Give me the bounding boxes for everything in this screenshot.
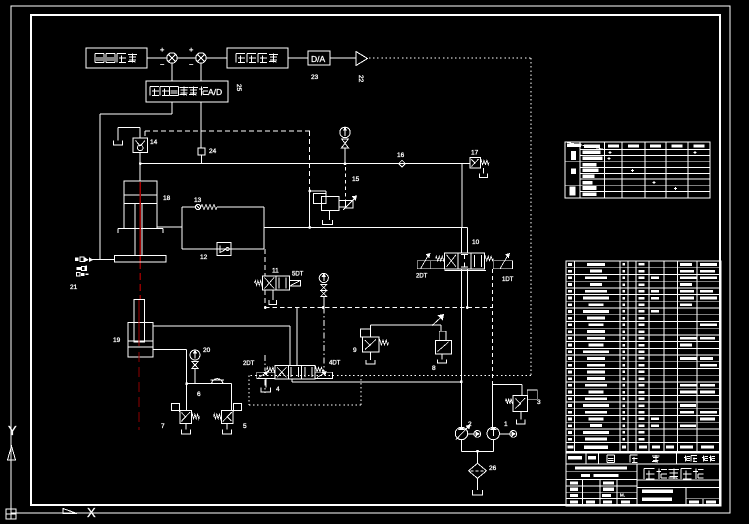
valve 15 drain to tank: [329, 211, 331, 221]
dashed pilot wire to valve 15 solenoid: [345, 167, 347, 201]
valve 8 flag arrow: [432, 317, 442, 326]
table group col blobs: [571, 151, 576, 160]
valve 11 solenoid: [289, 281, 300, 287]
moving platen 21: [115, 256, 167, 263]
wire: [330, 57, 356, 59]
red rod centerline upper: [139, 182, 141, 262]
cylinder 19 rod guide: [134, 299, 144, 342]
pump 1: [487, 427, 499, 439]
mingxibiao label: [607, 454, 615, 456]
svg-text:19: 19: [113, 337, 121, 344]
valve 10 underline: [445, 269, 487, 271]
test gauge on line C: [319, 273, 328, 282]
table header blobs: [608, 144, 619, 147]
gauge 20: [190, 350, 200, 360]
sensor b: [77, 267, 82, 270]
cylinder 18 barrel: [124, 181, 157, 229]
filter 26 to tank: [477, 478, 479, 490]
node 24 junction square: [198, 148, 205, 155]
parts table header row: [566, 451, 721, 453]
valve 11 spring: [255, 281, 263, 286]
svg-text:4DT: 4DT: [329, 361, 341, 367]
svg-text:X: X: [87, 505, 96, 520]
relief valve 7 pilot cap: [172, 404, 180, 411]
summing junction S2: [196, 53, 206, 63]
wire: [206, 57, 227, 59]
dotted enclosure around valve 4: [249, 375, 531, 377]
table plus marks: [609, 151, 612, 153]
svg-text:18: 18: [163, 195, 171, 202]
svg-text:8: 8: [432, 365, 436, 372]
svg-text:26: 26: [489, 465, 497, 472]
relief valve 3 body: [513, 395, 527, 411]
valve 11 drain tank: [272, 290, 274, 300]
valve 4 left solenoid: [257, 372, 275, 378]
wire node24 to main line: [201, 155, 203, 164]
svg-text:15: 15: [352, 176, 360, 183]
weight kg labels: [685, 456, 687, 462]
pump 2 variable: [455, 427, 467, 439]
loop piping: [181, 207, 183, 249]
check valve 12: [217, 243, 231, 256]
relief valve 3 drain: [520, 412, 522, 420]
main pressure line A: [140, 163, 462, 165]
wire valve14 to line A: [139, 153, 141, 164]
relief valve 17: [462, 163, 470, 165]
svg-text:12: 12: [200, 254, 208, 261]
wires valve10 top ports: [460, 227, 462, 252]
valve 4 tank port: [265, 379, 267, 387]
svg-text:4: 4: [276, 386, 280, 393]
dotted signal wire to valve 10: [369, 57, 531, 59]
relief valve 5 pilot cap: [234, 404, 242, 411]
wire: [288, 57, 308, 59]
UCS icon Y axis arrow: [8, 446, 16, 460]
svg-text:24: 24: [209, 148, 217, 155]
wire cylinder18 feed: [139, 164, 141, 181]
svg-text:2DT: 2DT: [416, 274, 428, 280]
motor of pump 1: [500, 433, 510, 435]
cylinder 18 mouth lips: [118, 228, 124, 230]
cylinder 19 body: [128, 323, 153, 358]
dash wire valve 11 down: [264, 290, 266, 307]
svg-text:Y: Y: [8, 423, 17, 438]
main line B: [264, 226, 467, 228]
svg-text:5DT: 5DT: [292, 272, 304, 278]
svg-text:A/D: A/D: [208, 87, 222, 97]
gauge shutoff valve: [342, 139, 349, 144]
svg-text:22: 22: [357, 75, 364, 83]
relief valve 9 pilot box: [361, 329, 371, 337]
svg-text:23: 23: [311, 74, 319, 81]
svg-text:2: 2: [468, 421, 472, 428]
block command-signal box: [86, 48, 147, 68]
svg-text:M.: M.: [620, 493, 625, 498]
pump 1 outlet wire: [492, 385, 494, 428]
relief valve 9 drain: [370, 352, 372, 360]
title block left area: [636, 464, 638, 505]
svg-text:7: 7: [161, 423, 165, 430]
accumulator 6: [212, 379, 224, 384]
svg-text:14: 14: [150, 139, 158, 146]
relief valve 7 drain: [185, 424, 187, 430]
svg-text:−: −: [160, 60, 165, 69]
table diagonal header: [565, 142, 605, 149]
svg-text:6: 6: [197, 391, 201, 398]
pressure gauge G1: [340, 127, 350, 137]
valve 4 bottom port wire to pumps: [291, 379, 293, 382]
svg-text:+: +: [189, 45, 194, 54]
svg-text:11: 11: [272, 268, 279, 275]
svg-text:9: 9: [353, 347, 357, 354]
relief valve 5 body: [221, 410, 233, 423]
check valve 14: [133, 138, 148, 153]
valve 10 left proportional solenoid 2DT: [417, 261, 430, 269]
wire gauge to line A: [344, 148, 346, 164]
pilot line of valve 14 to tank: [139, 128, 141, 139]
valve 4 right solenoid: [315, 372, 333, 378]
svg-text:20: 20: [203, 347, 211, 354]
wire S1 to A/D: [171, 63, 173, 81]
tank: [114, 141, 123, 146]
svg-text:17: 17: [471, 150, 479, 157]
wire to relief 3: [521, 385, 523, 396]
svg-text:D/A: D/A: [311, 54, 326, 64]
amplifier 22: [356, 52, 368, 66]
table row name blobs: [583, 150, 601, 154]
svg-text:25: 25: [235, 84, 242, 92]
red rod centerline lower: [138, 300, 140, 346]
sensor c: [77, 273, 81, 276]
relief valve 7 body: [180, 410, 192, 423]
title block grid: [566, 453, 721, 506]
relief valve 9 body: [362, 337, 379, 352]
svg-text:10: 10: [472, 239, 480, 246]
block D/A converter 23: [308, 51, 330, 65]
cylinder 19 lower port wire: [153, 349, 187, 351]
block control-signal box: [227, 48, 288, 68]
wire valve10 to pump 2: [460, 269, 462, 428]
wire line A to valve 10: [461, 164, 463, 228]
svg-text:2DT: 2DT: [243, 361, 255, 367]
wire 9 to 8: [370, 325, 372, 329]
block multiplex A/D box 25: [146, 81, 228, 102]
title block small grid: [566, 485, 637, 487]
dash wire loop to valve 11: [264, 249, 266, 276]
cylinder 18 piston rod: [134, 204, 136, 256]
svg-text:13: 13: [194, 197, 202, 204]
valve 4 body: [275, 365, 315, 379]
valve 8 top box: [439, 331, 446, 340]
filter 26: [469, 463, 487, 478]
feedback wire from platen to A/D: [171, 102, 173, 114]
suction piping: [461, 440, 463, 452]
line between relief 7 and 5: [187, 383, 232, 385]
valve 4 port P wire: [296, 308, 298, 366]
title lower cells: [685, 488, 687, 506]
motor of pump 2: [468, 433, 474, 435]
dash-dot wire down from gauge node: [323, 308, 325, 373]
svg-text:21: 21: [70, 284, 78, 291]
dashed pilot from pump1 to 1DT: [492, 269, 494, 385]
svg-text:1DT: 1DT: [502, 277, 514, 283]
electromagnet action table: [565, 142, 710, 198]
svg-text:−: −: [189, 60, 194, 69]
main title hydraulic system diagram: [637, 479, 721, 481]
drain of valve 17 to tank: [483, 168, 485, 174]
cylinder 19 upper port wire to valve 4: [153, 325, 290, 327]
wire S2 to A/D: [200, 63, 202, 81]
wire to relief 5: [231, 384, 233, 411]
svg-text:+: +: [160, 45, 165, 54]
svg-text:1: 1: [504, 421, 508, 428]
row blobs: [568, 456, 582, 459]
valve 8 body: [435, 341, 451, 354]
parts list table: [566, 261, 721, 506]
UCS icon origin box: [6, 509, 16, 519]
dash-dot centerline through 2DT: [264, 355, 266, 371]
wire valve10 port B: [466, 269, 468, 308]
dashed pilot wire to valve 14: [145, 130, 310, 132]
cylinder 18 rod-side port wire: [157, 226, 182, 228]
valve 8 drain bracket: [441, 354, 443, 360]
position sensor a: [75, 258, 79, 262]
svg-text:5: 5: [243, 423, 247, 430]
summing junction S1: [167, 53, 177, 63]
relief valve 5 drain: [226, 424, 228, 430]
svg-text:3: 3: [537, 399, 541, 406]
parts rows content blobs: [568, 263, 572, 266]
valve 10 right proportional solenoid 1DT: [485, 256, 494, 260]
wire A/D to node 24: [200, 102, 202, 148]
valve 15 proportional solenoid: [346, 201, 354, 209]
relief valve 3 top box: [527, 390, 537, 399]
svg-text:16: 16: [397, 152, 405, 159]
wire: [147, 57, 167, 59]
dashed line C: [265, 307, 492, 309]
UCS icon X axis arrow: [63, 509, 77, 514]
wire: [177, 57, 196, 59]
